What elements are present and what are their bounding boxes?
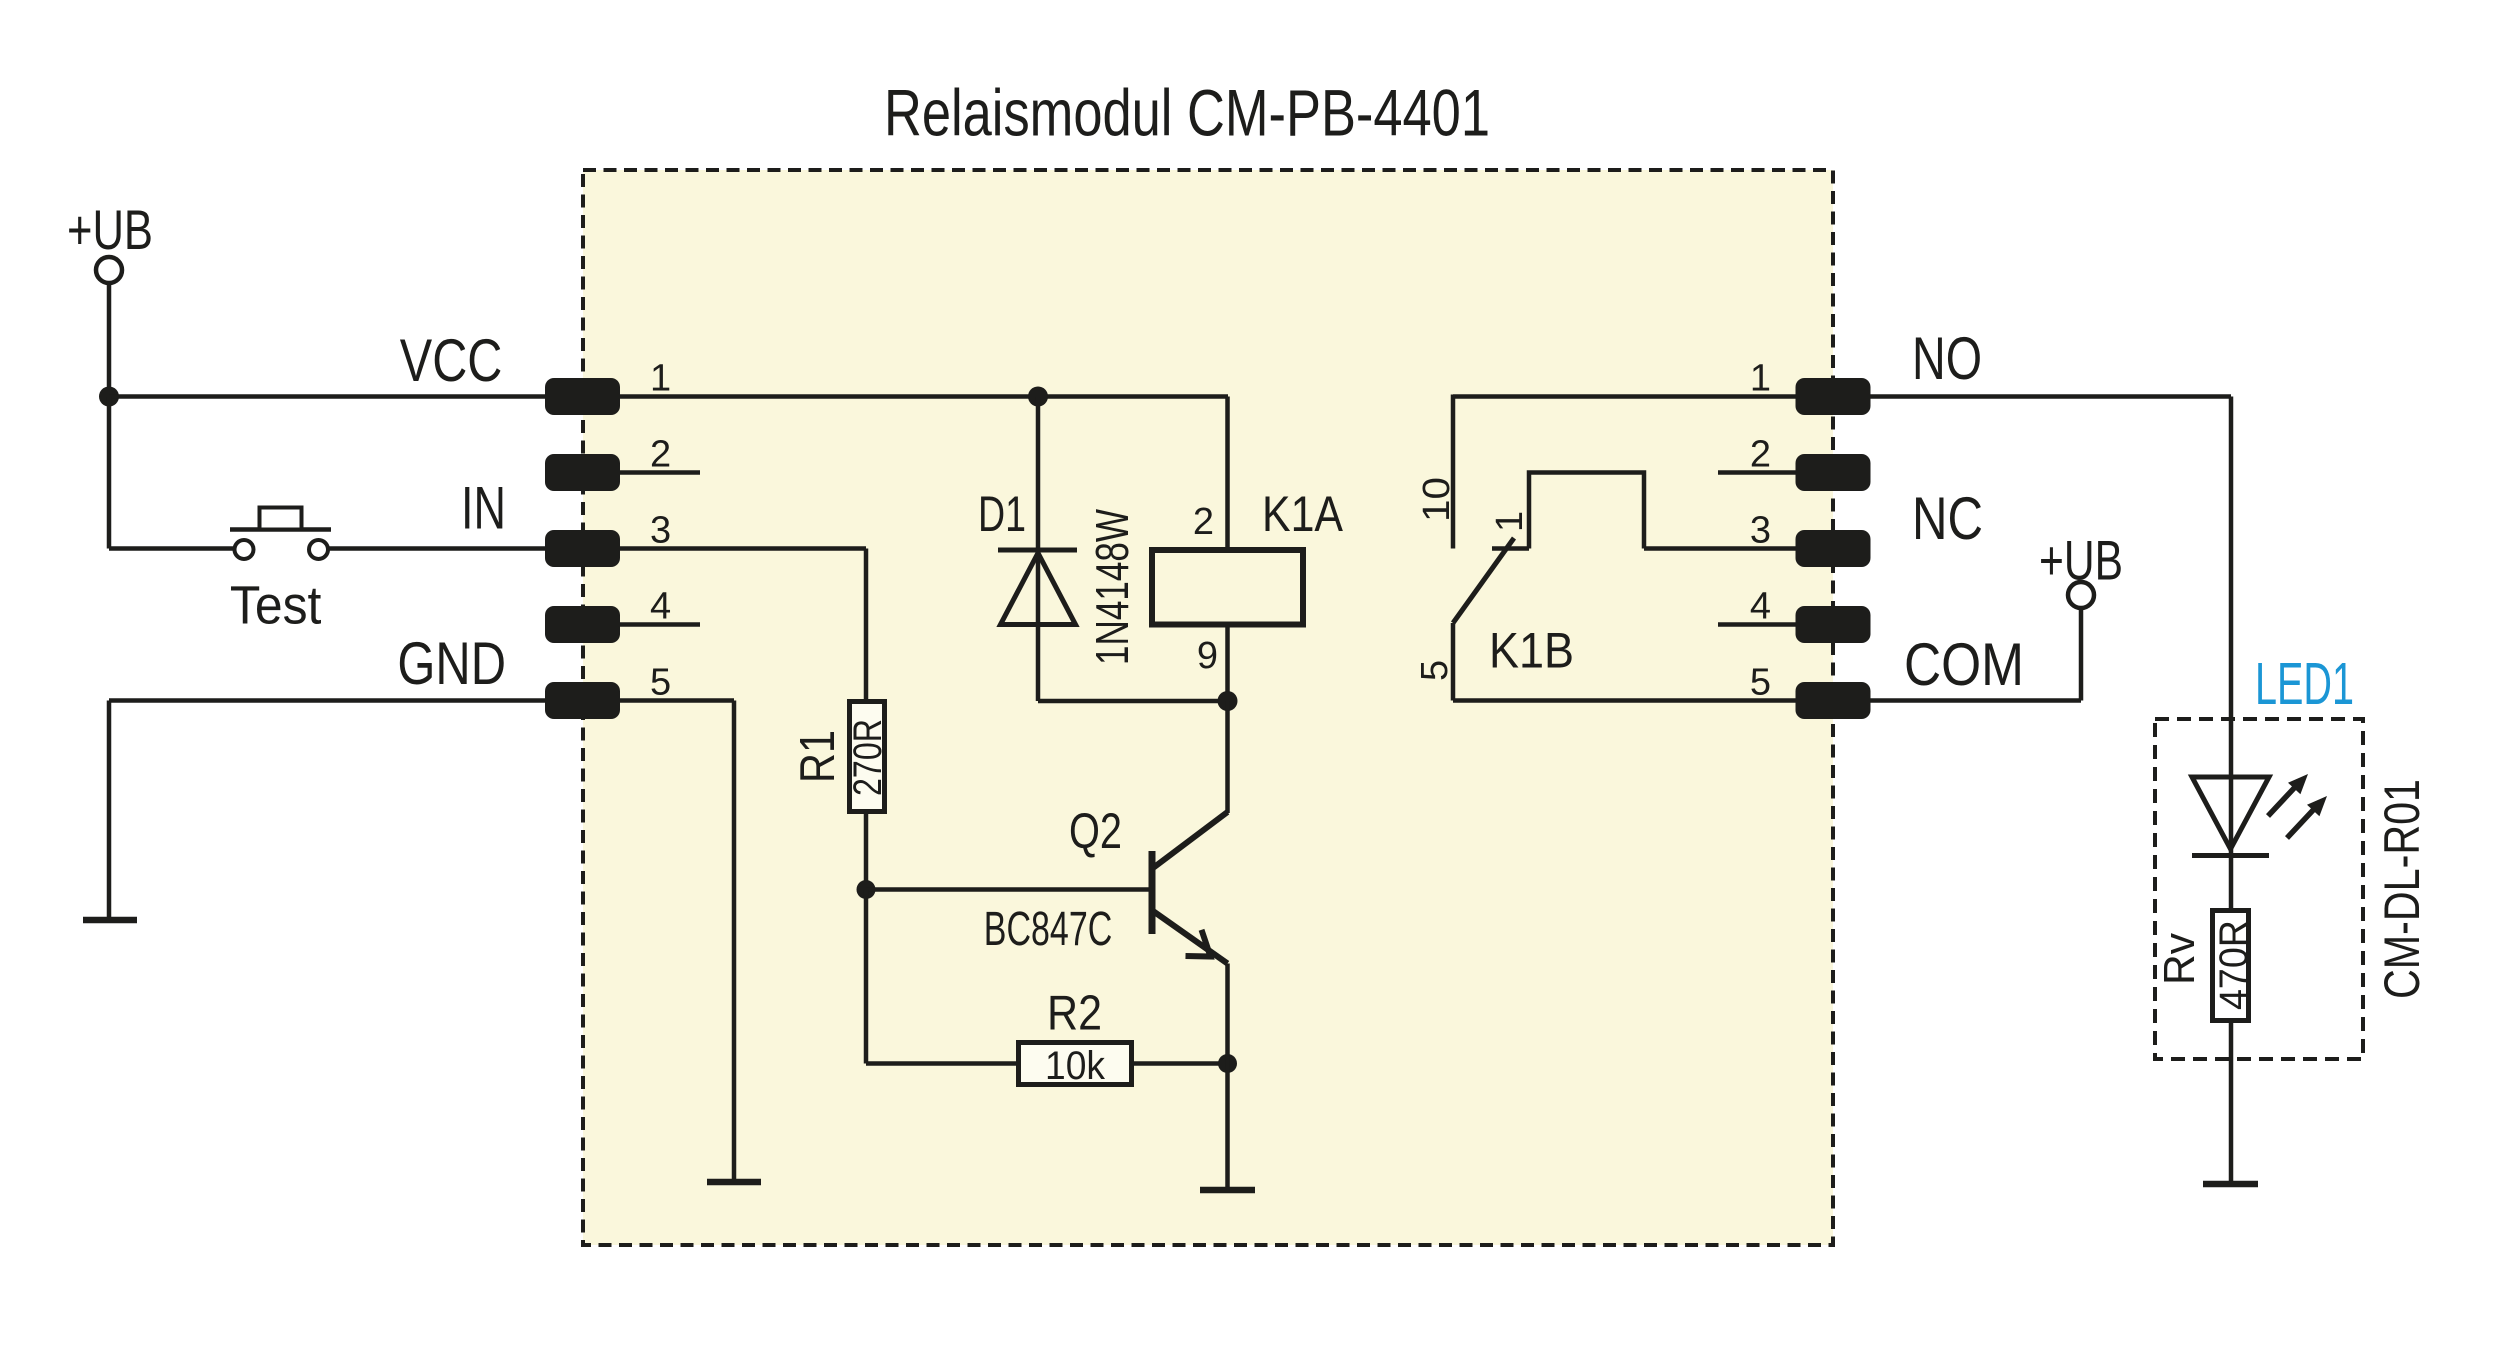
stub pin 4 left <box>620 622 700 627</box>
diode D1 1N4148W (cathode bar and triangle) <box>998 550 1077 625</box>
node junction VCC / D1 <box>1028 387 1048 407</box>
svg-text:NO: NO <box>1912 325 1982 392</box>
svg-text:4: 4 <box>650 586 671 628</box>
ground (emitter) <box>1200 1187 1255 1194</box>
wire base node down to R2 <box>864 890 869 1064</box>
svg-text:5: 5 <box>1414 660 1456 681</box>
wire COM to +UB stub <box>1871 698 2082 703</box>
stub pin 2 right <box>1718 470 1796 475</box>
svg-text:3: 3 <box>650 510 671 552</box>
wire node 9 down to collector <box>1225 701 1230 813</box>
relay contact K1B NO terminal <box>1451 395 1456 549</box>
wire to Test button <box>109 546 234 551</box>
wire GND down to ground <box>107 701 112 918</box>
pad pin 3 right <box>1796 530 1871 567</box>
wire +UB down to VCC node <box>107 283 112 397</box>
wire emitter down <box>1225 964 1230 1188</box>
pad pin 4 left <box>545 606 620 643</box>
LED LED1 (triangle, bar, light arrows) <box>2192 774 2327 856</box>
wire Test button to IN pad <box>329 546 546 551</box>
supply terminal +UB (left) <box>67 198 153 283</box>
svg-text:Relaismodul CM-PB-4401: Relaismodul CM-PB-4401 <box>884 76 1490 150</box>
ground (left external) <box>83 917 137 924</box>
wire IN pin3 to R1 <box>620 546 866 551</box>
wire coil bottom to node 9 <box>1225 625 1230 702</box>
svg-text:IN: IN <box>461 475 506 542</box>
wire base node to Q2 base <box>866 887 1149 892</box>
ground (LED branch) <box>2203 1181 2258 1188</box>
svg-text:1: 1 <box>1750 358 1771 400</box>
wire down to internal ground <box>732 701 737 1180</box>
node junction at +UB / VCC rail <box>99 387 119 407</box>
svg-text:VCC: VCC <box>400 327 503 394</box>
svg-text:3: 3 <box>1750 510 1771 552</box>
svg-text:5: 5 <box>650 662 671 704</box>
LED module dashed box CM-DL-R01 <box>2155 719 2363 1059</box>
wire R1 bottom to base node <box>864 812 869 890</box>
wire NO to LED column <box>1871 394 2232 399</box>
svg-text:BC847C: BC847C <box>984 903 1113 956</box>
ground (internal pin5) <box>707 1179 761 1186</box>
wire GND pin5 inside module <box>620 698 734 703</box>
svg-text:Test: Test <box>230 576 322 636</box>
node junction base <box>857 880 876 899</box>
svg-text:+UB: +UB <box>67 198 153 261</box>
svg-text:2: 2 <box>1193 501 1214 543</box>
transistor Q2 BC847C <box>1152 812 1228 964</box>
svg-text:2: 2 <box>1750 434 1771 476</box>
wire NC to pad 3 <box>1644 546 1796 551</box>
svg-text:+UB: +UB <box>2039 529 2123 592</box>
wire VCC corner down to relay coil <box>1225 397 1230 549</box>
svg-text:4: 4 <box>1750 586 1771 628</box>
pushbutton Test <box>230 508 331 560</box>
relay K1B armature <box>1453 538 1514 623</box>
svg-text:R1: R1 <box>791 730 845 783</box>
svg-text:5: 5 <box>1750 662 1771 704</box>
wire R2 right to emitter node <box>1132 1061 1228 1066</box>
pad pin 1 right <box>1796 378 1871 415</box>
svg-text:270R: 270R <box>846 719 890 796</box>
resistor Rv <box>2213 911 2249 1021</box>
wire +UB node down to Test branch <box>107 397 112 549</box>
svg-text:1: 1 <box>650 358 671 400</box>
pad pin 5 left <box>545 682 620 719</box>
svg-text:NC: NC <box>1912 485 1983 552</box>
relay K1B NC contact tick <box>1492 546 1529 551</box>
wire LED cathode to Rv <box>2229 856 2234 911</box>
svg-text:CM-DL-R01: CM-DL-R01 <box>2374 779 2430 999</box>
wire VCC inside module pin1 to K1A coil corner <box>620 394 1228 399</box>
relay module dashed box CM-PB-4401 <box>583 170 1833 1245</box>
svg-text:470R: 470R <box>2212 920 2256 1010</box>
wire GND rail from pad 5 to left <box>109 698 545 703</box>
svg-text:R2: R2 <box>1047 987 1102 1041</box>
svg-text:LED1: LED1 <box>2255 651 2354 717</box>
stub pin 2 left <box>620 470 700 475</box>
wire Rv down to ground <box>2229 1020 2234 1181</box>
wire VCC rail to pin 1 pad <box>109 394 545 399</box>
wire down to R1 top <box>864 549 869 702</box>
resistor R1 <box>850 702 885 812</box>
svg-text:1N4148W: 1N4148W <box>1086 509 1138 665</box>
svg-text:GND: GND <box>397 630 506 697</box>
svg-text:9: 9 <box>1197 635 1218 677</box>
node junction R2 / emitter <box>1218 1054 1237 1073</box>
relay K1B COM terminal <box>1451 623 1456 701</box>
svg-text:10: 10 <box>1416 477 1458 522</box>
svg-text:2: 2 <box>650 434 671 476</box>
wire D1 branch down <box>1036 397 1041 702</box>
pad pin 2 left <box>545 454 620 491</box>
svg-text:K1B: K1B <box>1489 623 1574 679</box>
pad pin 1 left <box>545 378 620 415</box>
svg-text:Q2: Q2 <box>1069 803 1122 859</box>
relay K1B NC step to pin 3 <box>1529 473 1644 549</box>
pad pin 2 right <box>1796 454 1871 491</box>
pad pin 3 left <box>545 530 620 567</box>
wire NO column down to LED <box>2229 397 2234 780</box>
wire NO contact row (K1B to pad 1) <box>1453 394 1796 399</box>
resistor R2 <box>1019 1043 1132 1085</box>
svg-text:1: 1 <box>1489 511 1531 532</box>
relay coil K1A <box>1152 550 1303 625</box>
pad pin 4 right <box>1796 606 1871 643</box>
wire D1 anode to node 9 <box>1038 699 1228 704</box>
svg-text:D1: D1 <box>978 486 1026 542</box>
supply terminal +UB (right) <box>2039 529 2123 609</box>
svg-text:Rv: Rv <box>2155 933 2204 985</box>
stub pin 4 right <box>1718 622 1796 627</box>
wire COM row to pad 5 <box>1453 698 1796 703</box>
wire +UB stub up <box>2079 607 2084 701</box>
svg-text:COM: COM <box>1904 631 2024 698</box>
node 9 junction <box>1218 691 1238 711</box>
wire to R2 left <box>866 1061 1018 1066</box>
svg-text:K1A: K1A <box>1262 486 1344 542</box>
pad pin 5 right <box>1796 682 1871 719</box>
svg-text:10k: 10k <box>1045 1044 1106 1088</box>
